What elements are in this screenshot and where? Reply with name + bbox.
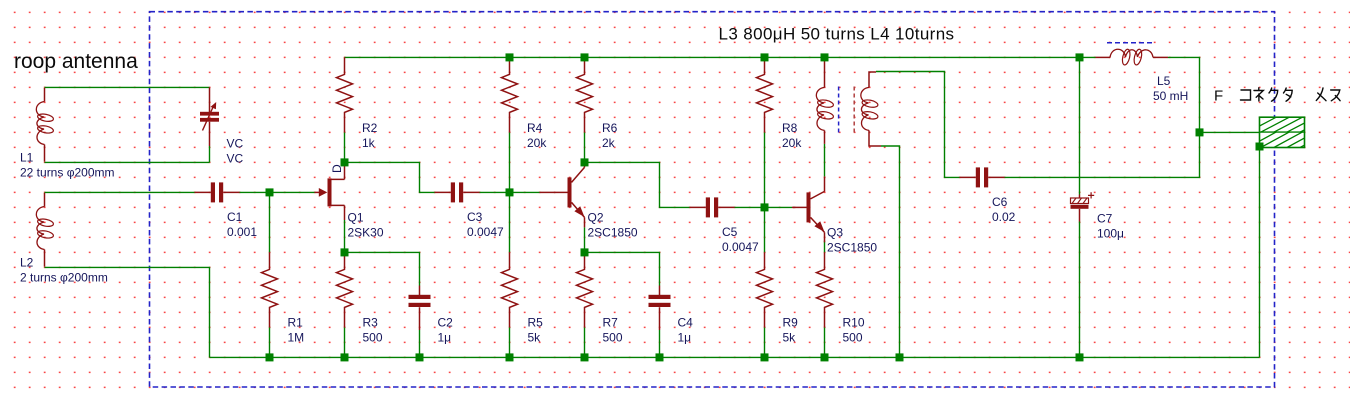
svg-text:L2: L2: [20, 256, 34, 270]
svg-text:R6: R6: [602, 121, 618, 135]
svg-text:L5: L5: [1157, 74, 1171, 88]
resistor R9: [757, 252, 773, 327]
svg-text:1M: 1M: [288, 331, 305, 345]
label R3: [363, 316, 383, 345]
svg-text:100μ: 100μ: [1097, 227, 1124, 241]
wire R4 bottom: [509, 132, 511, 192]
wire L5 leads: [1080, 57, 1200, 132]
wire R10 bottom: [824, 327, 826, 357]
svg-text:0.0047: 0.0047: [722, 240, 759, 254]
resistor R3: [337, 252, 353, 327]
label C6: [992, 195, 1016, 224]
capacitor C3: [435, 182, 480, 202]
capacitor C2: [409, 286, 431, 331]
svg-text:2 turns φ200mm: 2 turns φ200mm: [20, 271, 108, 285]
label C1: [227, 210, 257, 239]
label R10: [843, 316, 865, 345]
label L1: [20, 151, 115, 180]
junction rail R9: [761, 353, 769, 361]
svg-text:R4: R4: [527, 121, 543, 135]
junction Q2 collector R6: [581, 158, 589, 166]
label Q1: [348, 211, 384, 240]
resistor R1: [262, 252, 278, 327]
svg-text:VC: VC: [227, 152, 244, 166]
wire L1 loop bottom: [45, 161, 210, 163]
wire C4 bottom: [659, 330, 661, 357]
capacitor C7 electrolytic: [1071, 192, 1095, 221]
svg-text:L1: L1: [20, 151, 34, 165]
junction rail C2: [416, 353, 424, 361]
wire C7 column: [1079, 57, 1081, 357]
pin label D of Q1: [330, 164, 344, 173]
svg-text:5k: 5k: [528, 331, 542, 345]
svg-text:C4: C4: [678, 316, 694, 330]
label R9: [783, 316, 799, 345]
label C4: [678, 316, 694, 345]
inductor L2 coil: [36, 193, 54, 267]
svg-text:0.001: 0.001: [227, 225, 257, 239]
inductor L3 transformer primary: [816, 58, 834, 144]
junction connector ground: [1256, 143, 1264, 151]
junction C5 R8 R9 Q3 base: [761, 203, 769, 211]
junction rail R5: [506, 353, 514, 361]
capacitor C1: [195, 182, 240, 202]
svg-text:R8: R8: [782, 121, 798, 135]
svg-text:1k: 1k: [362, 136, 376, 150]
svg-text:2k: 2k: [602, 136, 616, 150]
wire C2 bottom: [419, 330, 421, 357]
svg-text:20k: 20k: [527, 136, 547, 150]
wire Q1 source down: [344, 220, 346, 252]
junction rail C7: [1076, 353, 1084, 361]
junction rail R1: [266, 353, 274, 361]
svg-text:R9: R9: [783, 316, 799, 330]
junction rail R7: [581, 353, 589, 361]
transformer core L4 side: [853, 87, 855, 134]
svg-text:C5: C5: [722, 225, 738, 239]
wire Q2 emitter down: [584, 227, 586, 252]
junction Q2 emitter R7: [581, 248, 589, 256]
resistor R6: [577, 57, 593, 132]
wire R7 bottom: [584, 327, 586, 357]
label R8: [782, 121, 802, 150]
junction rail R10: [821, 353, 829, 361]
svg-text:C1: C1: [227, 210, 243, 224]
variable capacitor VC: [200, 87, 219, 146]
wire R9 column: [764, 207, 766, 357]
wire R3 bottom: [344, 327, 346, 357]
label R4: [527, 121, 547, 150]
label L2: [20, 256, 108, 285]
wire Q2 collector to C5: [585, 162, 690, 207]
wire output to connector: [1200, 131, 1260, 133]
svg-text:2SK30: 2SK30: [348, 226, 384, 240]
wire L4 bottom return: [881, 146, 900, 357]
svg-text:R3: R3: [363, 316, 379, 330]
label L5: [1153, 74, 1188, 103]
svg-text:1μ: 1μ: [678, 331, 692, 345]
svg-text:Q3: Q3: [827, 226, 843, 240]
junction Q1 drain R2: [341, 158, 349, 166]
svg-text:F: F: [1214, 87, 1223, 104]
label R6: [602, 121, 618, 150]
label R7: [603, 316, 623, 345]
wire C6 to output node: [1005, 132, 1200, 177]
wire Q3 emitter to R10: [824, 241, 826, 253]
inductor L4 transformer secondary: [861, 72, 881, 146]
junction top rail L3: [821, 53, 829, 61]
label C5: [722, 225, 759, 254]
label C2: [438, 316, 454, 345]
svg-text:20k: 20k: [782, 136, 802, 150]
wire L2 bottom to ground rail: [45, 267, 210, 357]
capacitor C6: [960, 167, 1005, 187]
svg-text:roop antenna: roop antenna: [14, 50, 138, 73]
wire R8 bottom: [764, 132, 766, 207]
title text roop antenna: [14, 50, 138, 73]
wire source junction to C2: [345, 252, 420, 285]
transformer core L3 side: [838, 87, 840, 134]
svg-text:500: 500: [363, 331, 383, 345]
svg-text:500: 500: [603, 331, 623, 345]
svg-text:2SC1850: 2SC1850: [827, 241, 877, 255]
resistor R7: [577, 252, 593, 327]
wire R2 bottom: [344, 132, 346, 162]
junction rail L4 return: [896, 353, 904, 361]
wire C3 to Q2 base: [480, 191, 540, 193]
wire L1 loop top: [45, 86, 210, 88]
junction rail R3: [341, 353, 349, 361]
junction rail C4: [656, 353, 664, 361]
junction top rail R6: [581, 53, 589, 61]
transistor Q3: [792, 176, 825, 242]
svg-text:VC: VC: [227, 137, 244, 151]
label C7: [1097, 212, 1124, 241]
wire C1 to Q1 gate: [240, 191, 315, 193]
svg-text:R10: R10: [843, 316, 865, 330]
junction top rail C7: [1076, 53, 1084, 61]
svg-text:C6: C6: [992, 195, 1008, 209]
svg-text:Q2: Q2: [588, 211, 604, 225]
inductor L5 core: [1107, 42, 1154, 44]
wire R5 column: [509, 192, 511, 357]
label R5: [528, 316, 544, 345]
svg-text:C7: C7: [1097, 212, 1113, 226]
svg-text:L3 800μH 50 turns L4 10turns: L3 800μH 50 turns L4 10turns: [719, 25, 955, 44]
svg-text:R2: R2: [362, 121, 378, 135]
label Q3: [827, 226, 877, 255]
resistor R5: [502, 252, 518, 327]
wire L3 to Q3 collector: [824, 144, 826, 177]
wire Q1 drain to C3: [345, 162, 436, 192]
svg-text:2SC1850: 2SC1850: [588, 226, 638, 240]
transistor Q2: [540, 162, 585, 227]
label R2: [362, 121, 378, 150]
junction Q1 source R3: [341, 248, 349, 256]
svg-text:C3: C3: [467, 210, 483, 224]
label F connector: [1214, 87, 1223, 104]
wire connector ground drop: [1259, 147, 1261, 358]
junction top rail R4: [506, 53, 514, 61]
resistor R8: [757, 57, 773, 132]
svg-text:Q1: Q1: [348, 211, 364, 225]
inductor L1 coil: [36, 88, 54, 162]
junction output node: [1196, 128, 1204, 136]
wire emitter junction to C4: [585, 252, 660, 285]
label katakana konekuta mesu: [1241, 88, 1341, 101]
inductor L5: [1096, 49, 1169, 66]
wire top power rail: [345, 56, 1080, 58]
wire C5 to Q3 base: [735, 206, 793, 208]
wire R6 bottom: [584, 132, 586, 162]
svg-text:C2: C2: [438, 316, 454, 330]
junction C1 R1 gate: [266, 188, 274, 196]
wire R1 column: [269, 192, 271, 357]
junction top rail R8: [761, 53, 769, 61]
svg-text:5k: 5k: [783, 331, 797, 345]
svg-text:50 mH: 50 mH: [1153, 89, 1188, 103]
svg-text:0.0047: 0.0047: [467, 225, 504, 239]
svg-text:22 turns φ200mm: 22 turns φ200mm: [20, 166, 115, 180]
wire bottom ground rail: [210, 356, 1260, 358]
junction R4 R5 base: [506, 188, 514, 196]
svg-text:500: 500: [843, 331, 863, 345]
label C3: [467, 210, 504, 239]
label R1: [288, 316, 305, 345]
svg-text:0.02: 0.02: [992, 210, 1016, 224]
svg-text:R5: R5: [528, 316, 544, 330]
wire VC bottom lead: [209, 146, 211, 162]
capacitor C4: [649, 286, 671, 331]
transistor Q1 JFET: [315, 162, 345, 220]
label Q2: [588, 211, 638, 240]
resistor R10: [817, 252, 833, 327]
resistor R4: [502, 57, 518, 132]
svg-text:1μ: 1μ: [438, 331, 452, 345]
svg-text:R1: R1: [288, 316, 304, 330]
wire L4 top to C6: [876, 72, 960, 178]
wire L2 top to C1: [45, 191, 195, 193]
label VC: [227, 137, 244, 166]
connector CN1 F-type: [1248, 117, 1342, 147]
capacitor C5: [690, 197, 735, 217]
svg-text:R7: R7: [603, 316, 619, 330]
label L3 800uH 50 turns L4 10turns: [719, 25, 955, 44]
resistor R2: [337, 57, 353, 132]
